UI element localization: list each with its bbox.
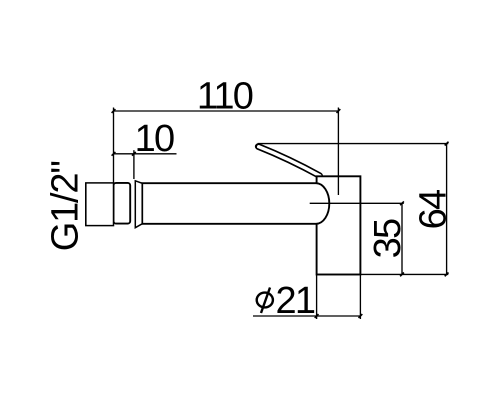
- fitting nut: [114, 183, 131, 224]
- svg-text:21: 21: [276, 280, 315, 322]
- dimension phi21: line: [253, 315, 360, 317]
- wire: 110 extension line right (inside body): [337, 108, 339, 196]
- pipe (horizontal spout with elliptical end cap): [142, 183, 329, 224]
- thread stub G1/2: [86, 183, 114, 226]
- dimension 110: line: [114, 110, 339, 112]
- dimension phi21: ticks: [315, 314, 363, 318]
- lever handle: [258, 147, 319, 176]
- faucet body (vertical cylinder): [317, 176, 361, 274]
- dimension 10: extension: [133, 150, 135, 179]
- dimension 64: top extension from lever tip: [258, 143, 449, 145]
- svg-text:35: 35: [367, 219, 409, 258]
- svg-text:10: 10: [135, 118, 174, 160]
- dimension 35: ticks: [400, 201, 404, 276]
- dimension 110: ticks: [112, 109, 341, 113]
- dimension phi21: label: [257, 280, 315, 322]
- dimension 110: left extension: [113, 108, 115, 184]
- node A: pipe centerline / 35 top extension: [310, 202, 404, 204]
- dimension 10: ticks: [112, 152, 136, 156]
- dimension 10: line: [114, 153, 177, 155]
- svg-text:G1/2": G1/2": [45, 161, 87, 251]
- dimension phi21: left extension: [316, 275, 318, 320]
- svg-text:110: 110: [197, 76, 253, 118]
- dimension 64: ticks: [445, 142, 449, 277]
- dimension 64: bottom extension: [360, 273, 448, 275]
- svg-text:64: 64: [412, 189, 454, 229]
- dimension phi21: right extension: [359, 275, 361, 320]
- flange (conical escutcheon): [135, 181, 142, 228]
- dimension 64: line: [446, 144, 448, 275]
- dimension 35: line: [401, 203, 403, 274]
- thread label G1/2": bracket: [85, 183, 87, 226]
